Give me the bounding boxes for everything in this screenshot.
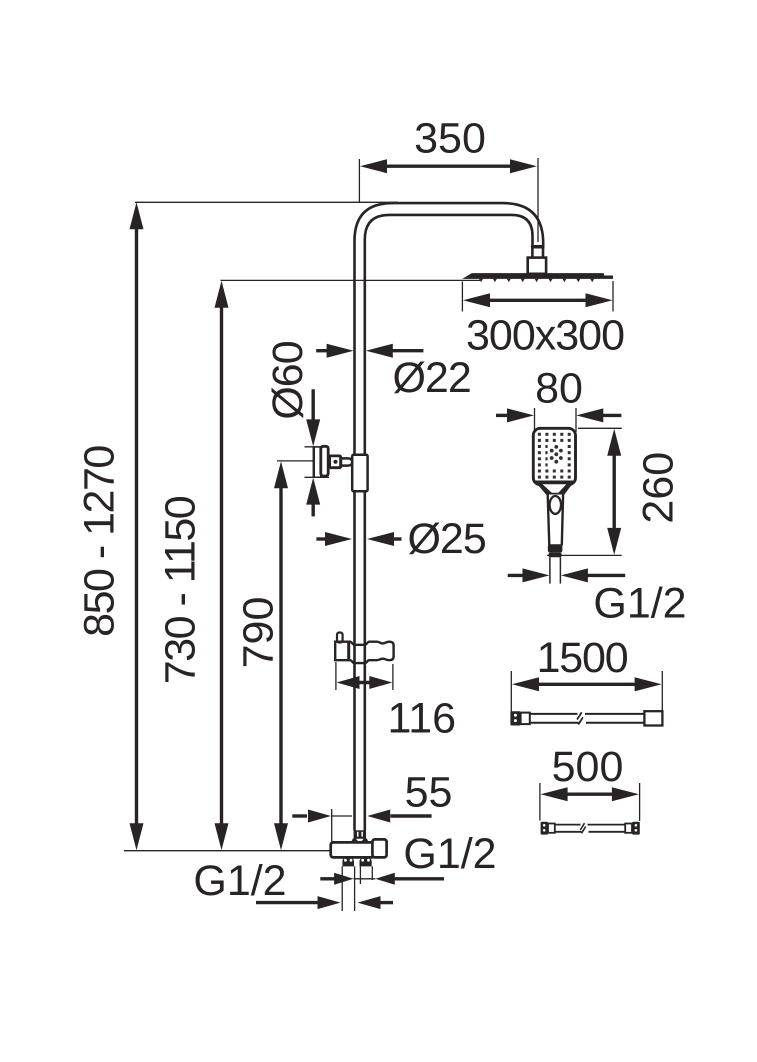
wire wall mounting reference line bottom — [124, 850, 336, 852]
svg-text:55: 55 — [405, 769, 453, 817]
svg-text:850 - 1270: 850 - 1270 — [76, 446, 124, 637]
wire reference line at wall bracket center — [277, 460, 320, 462]
svg-text:G1/2: G1/2 — [403, 830, 496, 878]
dimension Ø22 — [316, 344, 471, 402]
hand shower handle — [548, 495, 563, 546]
dimension 116 — [336, 662, 456, 743]
hand shower thread stem — [549, 557, 551, 583]
dimension 1500 — [511, 634, 662, 712]
mixer valve outlet box — [372, 839, 386, 857]
hand shower neck — [534, 481, 575, 496]
dimension 730 - 1150 — [157, 281, 229, 851]
hand shower button — [550, 496, 561, 514]
svg-text:350: 350 — [414, 115, 486, 163]
mixer valve inlet cone — [350, 839, 369, 844]
hand shower center spray cluster — [548, 443, 566, 467]
svg-text:G1/2: G1/2 — [193, 857, 286, 905]
svg-text:Ø25: Ø25 — [407, 515, 485, 563]
mixer valve centerline — [359, 843, 361, 858]
svg-text:Ø60: Ø60 — [264, 341, 312, 419]
mixer valve body — [331, 842, 374, 857]
svg-text:G1/2: G1/2 — [593, 580, 686, 628]
wall bracket arm block — [330, 456, 341, 468]
svg-text:790: 790 — [235, 597, 283, 669]
rain shower head 300x300 (side view bar) — [462, 273, 613, 279]
svg-text:Ø22: Ø22 — [392, 354, 470, 402]
wall bracket screw dot — [334, 460, 338, 464]
dimension 300x300 — [462, 281, 624, 360]
extension lines below valve — [341, 866, 343, 911]
dimension G1/2 hand shower — [508, 568, 687, 627]
dimension 80 — [496, 365, 621, 433]
dimension Ø60 — [264, 341, 329, 516]
hand shower holder tab — [337, 633, 343, 643]
dimension G1/2 inlet (left label) — [193, 857, 393, 909]
wall bracket cap — [321, 446, 328, 476]
wire reference line at rain head bottom — [221, 279, 481, 281]
hand shower holder divider — [347, 642, 350, 661]
svg-text:260: 260 — [635, 452, 683, 524]
svg-text:300x300: 300x300 — [466, 312, 624, 360]
wire reference line top (ceiling level) — [135, 201, 398, 203]
mixer valve left inlet cap — [342, 857, 354, 866]
rain head nozzles — [479, 279, 594, 282]
shower column pipe and top arm (inner line) — [365, 215, 533, 831]
dimension 55 — [292, 769, 452, 854]
hand shower head — [533, 428, 575, 484]
hand shower spray plate grid — [538, 433, 571, 479]
svg-text:116: 116 — [388, 695, 457, 743]
shower hose 500 — [541, 822, 640, 835]
rain head connector block — [528, 258, 546, 274]
dimension 350 — [359, 115, 538, 243]
pipe slider sleeve — [352, 455, 367, 492]
mixer valve nut on pipe — [354, 830, 366, 838]
dimension 790 — [235, 461, 289, 850]
hand shower nut — [548, 544, 563, 553]
dimension 260 — [547, 428, 683, 555]
dimension G1/2 outlet (right label) — [320, 830, 496, 885]
shower column pipe and top arm (outer line) — [355, 203, 544, 830]
rain head connector upper segment — [532, 249, 543, 258]
svg-text:730 - 1150: 730 - 1150 — [157, 496, 205, 684]
dimension 500 — [540, 743, 640, 821]
rain head connector nut band — [531, 245, 545, 249]
svg-text:80: 80 — [535, 365, 583, 413]
wall bracket escutcheon plate — [314, 447, 320, 477]
dimension Ø25 — [316, 515, 485, 563]
mixer valve right inlet cap — [360, 857, 372, 866]
svg-text:1500: 1500 — [537, 634, 628, 682]
shower hose 1500 — [510, 711, 662, 725]
svg-text:500: 500 — [552, 743, 624, 791]
wall bracket neck — [341, 458, 352, 465]
dimension 850 - 1270 — [76, 202, 144, 850]
hand shower holder body — [335, 642, 393, 663]
